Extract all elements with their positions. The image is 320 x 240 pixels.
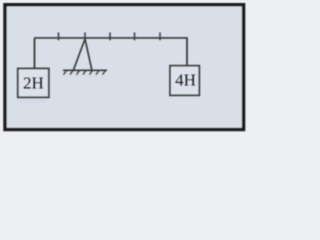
ground line bbox=[63, 69, 107, 71]
fulcrum triangle bbox=[74, 39, 92, 70]
tick 1 bbox=[58, 32, 60, 40]
tick 3 bbox=[109, 32, 111, 40]
tick 5 bbox=[159, 32, 161, 40]
svg-text:4H: 4H bbox=[175, 71, 196, 90]
beam bbox=[34, 37, 188, 39]
tick 2 bbox=[84, 32, 86, 40]
tick 4 bbox=[134, 32, 136, 40]
mass box 2H bbox=[18, 69, 49, 98]
ground hatching bbox=[64, 71, 106, 75]
left rope bbox=[34, 38, 36, 68]
mass box 4H bbox=[170, 66, 199, 96]
svg-text:2H: 2H bbox=[23, 73, 44, 92]
right rope bbox=[186, 38, 188, 65]
